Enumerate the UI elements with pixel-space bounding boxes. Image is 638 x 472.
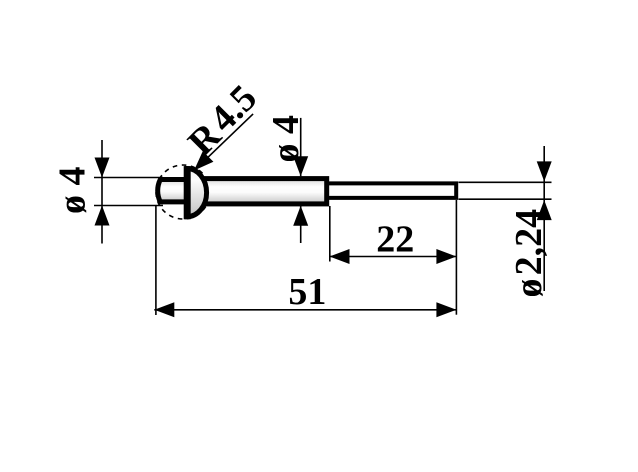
dimension line o4 left (101, 140, 103, 244)
arrow o2,24 top (537, 161, 552, 181)
extension line 22 left (329, 206, 331, 262)
rivet head dome (187, 169, 207, 217)
arrow 51 right (436, 302, 456, 317)
extension line left top (94, 177, 163, 179)
arrow 22 right (436, 249, 456, 264)
dimension line o4 bottom (300, 206, 302, 243)
rivet tail cylinder (left end) (158, 180, 190, 202)
mandrel (thin pin, right) (327, 183, 456, 198)
arrow o4 top (293, 156, 308, 176)
leader line R4.5 (197, 114, 254, 168)
extension line 51 left (155, 205, 157, 315)
arrow 22 left (330, 249, 350, 264)
arrow o4 bottom (293, 206, 308, 226)
dimension line o4 top (300, 118, 302, 176)
dashed circle R4.5 head sphere (156, 165, 210, 219)
svg-text:22: 22 (376, 218, 414, 260)
arrow o2,24 bottom (537, 200, 552, 220)
dimension line 51 (154, 309, 456, 311)
arrow 51 left (154, 302, 174, 317)
arrow left bottom (95, 206, 110, 226)
svg-text:ø 2,24: ø 2,24 (508, 209, 550, 298)
leader arrow R4.5 (194, 151, 213, 170)
rivet body shaft (192, 179, 327, 204)
arrow left top (95, 158, 110, 178)
rivet head flat face (184, 166, 191, 219)
dimension line o2,24 (543, 146, 545, 291)
svg-text:51: 51 (288, 271, 326, 313)
svg-text:ø 4: ø 4 (52, 167, 94, 215)
extension line left bottom (94, 205, 163, 207)
dimension line 22 (330, 256, 457, 258)
svg-text:ø 4: ø 4 (265, 115, 307, 163)
extension line o2,24 bottom (459, 198, 552, 200)
extension line right vertical (455, 200, 457, 315)
extension line o2,24 top (459, 181, 552, 183)
